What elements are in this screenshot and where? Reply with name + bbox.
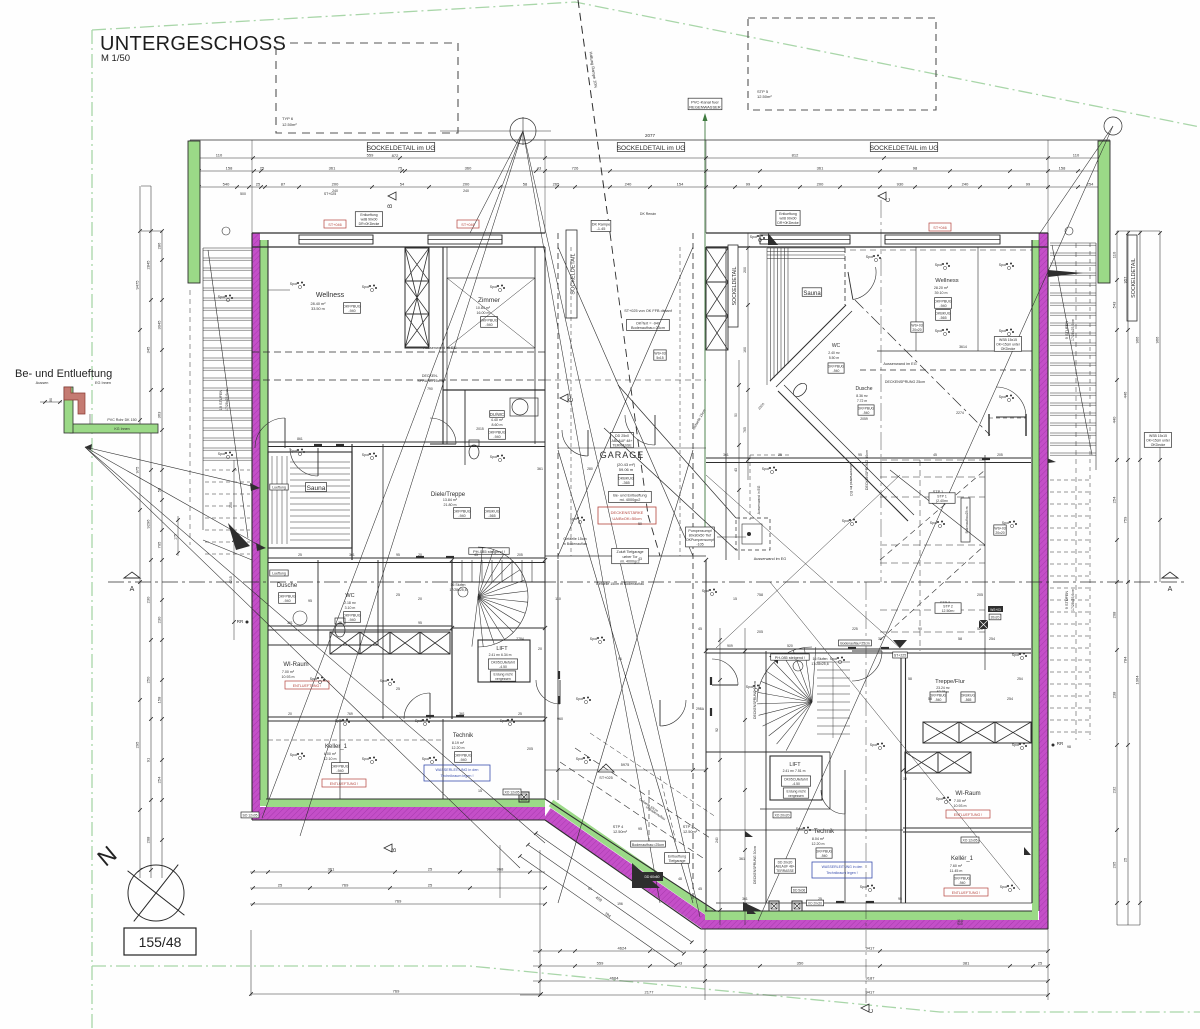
svg-text:87: 87 — [281, 182, 286, 187]
svg-text:Spot: Spot — [762, 467, 769, 471]
svg-text:12.50m²: 12.50m² — [683, 830, 698, 834]
svg-text:Erdung nicht: Erdung nicht — [786, 790, 805, 794]
svg-text:58: 58 — [928, 697, 932, 701]
svg-text:95: 95 — [396, 553, 400, 557]
svg-text:58: 58 — [908, 677, 912, 681]
svg-text:363: 363 — [157, 411, 162, 418]
svg-text:205: 205 — [517, 553, 523, 557]
svg-text:Spot: Spot — [218, 295, 225, 299]
svg-text:205: 205 — [977, 593, 983, 597]
svg-text:-565: -565 — [939, 316, 946, 320]
svg-text:158: 158 — [226, 166, 233, 171]
svg-text:Spot: Spot — [866, 255, 873, 259]
svg-text:DK05CUilefahrt: DK05CUilefahrt — [784, 778, 808, 782]
svg-text:DKFPBUG: DKFPBUG — [343, 614, 361, 618]
svg-text:DK Renán: DK Renán — [640, 212, 656, 216]
svg-text:58: 58 — [958, 637, 962, 641]
svg-text:-940: -940 — [348, 309, 355, 313]
svg-text:ABLAUF 48+: ABLAUF 48+ — [611, 439, 632, 443]
svg-text:9 STUFEN: 9 STUFEN — [1065, 591, 1069, 610]
svg-text:16.00 m: 16.00 m — [477, 311, 490, 315]
svg-text:DD 25x0: DD 25x0 — [615, 434, 629, 438]
svg-text:361: 361 — [287, 621, 293, 625]
svg-text:769: 769 — [395, 899, 402, 904]
svg-text:75: 75 — [398, 166, 403, 171]
svg-text:B: B — [392, 848, 398, 852]
svg-text:230: 230 — [157, 616, 162, 623]
svg-text:DD 5x06: DD 5x06 — [793, 889, 806, 893]
svg-text:DKFPBUG: DKFPBUG — [934, 299, 952, 303]
svg-text:in Bodenauflau: in Bodenauflau — [563, 542, 587, 546]
svg-text:769: 769 — [342, 883, 349, 888]
svg-text:DECKENSTÄRKE: DECKENSTÄRKE — [611, 510, 644, 515]
svg-text:254: 254 — [1017, 677, 1023, 681]
svg-text:DKFPBUG: DKFPBUG — [343, 304, 361, 308]
svg-text:286: 286 — [157, 242, 162, 249]
svg-text:12.50m²: 12.50m² — [942, 609, 956, 613]
svg-text:Bodenauflau=25cm: Bodenauflau=25cm — [840, 642, 869, 646]
svg-text:540: 540 — [223, 182, 230, 187]
svg-text:254: 254 — [1007, 697, 1013, 701]
svg-text:25: 25 — [1038, 961, 1043, 966]
svg-text:240: 240 — [625, 182, 632, 187]
svg-text:440: 440 — [1112, 416, 1117, 423]
svg-text:Tiefgarage: Tiefgarage — [668, 859, 685, 863]
svg-text:Pumpensumpf: Pumpensumpf — [688, 529, 711, 533]
svg-text:WS+03: WS+03 — [990, 608, 1001, 612]
svg-text:6.00 m²: 6.00 m² — [324, 752, 337, 756]
svg-text:WSB 15x15: WSB 15x15 — [1149, 434, 1167, 438]
svg-text:Gefaelle 15cm: Gefaelle 15cm — [563, 537, 586, 541]
svg-text:9187: 9187 — [866, 976, 876, 981]
svg-text:Spot: Spot — [422, 757, 429, 761]
svg-text:45: 45 — [698, 627, 702, 631]
svg-text:ST+046: ST+046 — [328, 223, 341, 227]
svg-text:17/28x25,6cm: 17/28x25,6cm — [1071, 589, 1075, 611]
svg-text:Spot: Spot — [750, 235, 757, 239]
svg-text:7.60 m²: 7.60 m² — [950, 864, 963, 868]
svg-text:-940: -940 — [336, 769, 343, 773]
svg-text:200: 200 — [743, 267, 747, 273]
svg-text:DECKENSPRUNG 30cm: DECKENSPRUNG 30cm — [865, 450, 869, 490]
svg-text:DKBKUG: DKBKUG — [484, 510, 499, 514]
svg-text:XO 20x20: XO 20x20 — [774, 814, 789, 818]
svg-text:99: 99 — [1026, 182, 1031, 187]
svg-text:DKBKUG: DKBKUG — [618, 476, 634, 480]
svg-text:SPRUNG 25cm: SPRUNG 25cm — [417, 379, 442, 383]
svg-text:-940: -940 — [833, 369, 840, 373]
svg-text:DKFPBUG: DKFPBUG — [488, 430, 506, 434]
svg-text:8.60 m: 8.60 m — [492, 423, 503, 427]
svg-text:9296: 9296 — [146, 519, 151, 529]
svg-text:XO 12x05: XO 12x05 — [962, 839, 977, 843]
svg-text:12.50m²: 12.50m² — [282, 122, 297, 127]
svg-text:280: 280 — [587, 467, 593, 471]
svg-text:968: 968 — [497, 867, 504, 872]
svg-text:C: C — [869, 1008, 875, 1013]
svg-text:DKFPBUG: DKFPBUG — [480, 318, 498, 322]
svg-text:158: 158 — [157, 696, 162, 703]
svg-text:Spot: Spot — [500, 719, 507, 723]
svg-text:STP 1: STP 1 — [937, 494, 947, 498]
svg-text:43: 43 — [638, 557, 642, 561]
svg-text:238: 238 — [1112, 691, 1117, 698]
svg-text:mi. 4000gc2: mi. 4000gc2 — [620, 498, 641, 502]
svg-text:Spot: Spot — [842, 519, 849, 523]
svg-text:20: 20 — [288, 712, 292, 716]
svg-text:DECKEN-: DECKEN- — [422, 374, 439, 378]
svg-text:-365: -365 — [622, 481, 630, 485]
svg-text:765: 765 — [743, 427, 747, 433]
svg-text:25: 25 — [818, 897, 822, 901]
svg-text:DECKENSPRUNG 25cm: DECKENSPRUNG 25cm — [885, 380, 925, 384]
svg-text:Keller_1: Keller_1 — [325, 744, 348, 750]
svg-text:DK05CUilefahrt: DK05CUilefahrt — [491, 661, 515, 665]
svg-text:WC: WC — [832, 343, 841, 349]
svg-text:45: 45 — [933, 453, 937, 457]
svg-text:STP 3: STP 3 — [683, 825, 693, 829]
svg-text:25: 25 — [778, 453, 782, 457]
svg-text:C: C — [886, 197, 892, 202]
svg-text:DECKENSPRUNG 30cm: DECKENSPRUNG 30cm — [753, 846, 757, 884]
svg-text:A: A — [130, 586, 135, 593]
svg-text:110: 110 — [555, 597, 561, 601]
svg-text:SOCKELDETAIL: SOCKELDETAIL — [732, 266, 738, 305]
svg-text:90: 90 — [918, 627, 922, 631]
svg-text:OKDecke: OKDecke — [1151, 443, 1166, 447]
svg-text:205: 205 — [757, 630, 763, 634]
svg-text:Spot: Spot — [870, 743, 877, 747]
svg-text:-940: -940 — [485, 323, 492, 327]
svg-text:39.10 m: 39.10 m — [935, 291, 948, 295]
svg-text:160: 160 — [743, 347, 747, 353]
svg-text:ST+046: ST+046 — [933, 226, 946, 230]
svg-text:33.50 m: 33.50 m — [311, 307, 325, 311]
svg-text:STP 4: STP 4 — [613, 825, 623, 829]
svg-text:25: 25 — [428, 883, 433, 888]
svg-text:155/48: 155/48 — [139, 934, 182, 950]
svg-text:DKFPBUG: DKFPBUG — [930, 694, 947, 698]
svg-text:45: 45 — [698, 887, 702, 891]
svg-text:-940: -940 — [348, 618, 355, 622]
svg-text:Ausserwand im EG: Ausserwand im EG — [754, 557, 787, 561]
svg-text:2059: 2059 — [860, 417, 868, 421]
svg-text:Spot: Spot — [935, 263, 942, 267]
svg-text:8.19 m²: 8.19 m² — [452, 741, 465, 745]
svg-text:30: 30 — [903, 777, 907, 781]
svg-text:2015: 2015 — [476, 427, 484, 431]
svg-text:790: 790 — [427, 387, 433, 391]
svg-text:2077: 2077 — [645, 133, 656, 138]
svg-text:DR<0KDecke: DR<0KDecke — [359, 222, 380, 226]
svg-text:17/28x25,6: 17/28x25,6 — [811, 662, 828, 666]
svg-text:Aussen: Aussen — [36, 381, 49, 385]
svg-text:12.20 m: 12.20 m — [812, 842, 825, 846]
svg-text:ENTLUEFTUNG !: ENTLUEFTUNG ! — [952, 891, 981, 895]
svg-text:DU/WC: DU/WC — [490, 412, 504, 417]
svg-text:99: 99 — [746, 182, 751, 187]
svg-text:784: 784 — [1123, 656, 1128, 663]
svg-text:909: 909 — [727, 644, 733, 648]
svg-text:158: 158 — [1059, 166, 1066, 171]
svg-text:Be- und Entlueftung: Be- und Entlueftung — [15, 368, 112, 380]
svg-text:DKFPBUG: DKFPBUG — [454, 754, 472, 758]
svg-text:OKPumpensumpf: OKPumpensumpf — [686, 538, 714, 542]
svg-text:20: 20 — [538, 647, 542, 651]
svg-text:-940: -940 — [939, 304, 946, 308]
svg-text:543: 543 — [1112, 301, 1117, 308]
svg-text:295: 295 — [135, 741, 140, 748]
svg-text:91: 91 — [588, 887, 592, 891]
svg-text:43: 43 — [678, 961, 683, 966]
svg-text:254: 254 — [157, 776, 162, 783]
svg-text:Technik: Technik — [453, 733, 474, 739]
svg-text:98: 98 — [1067, 745, 1071, 749]
svg-text:12.20 m: 12.20 m — [452, 746, 465, 750]
svg-text:Wellness: Wellness — [316, 292, 345, 299]
svg-text:-940: -940 — [935, 698, 942, 702]
svg-text:Spot: Spot — [490, 455, 497, 459]
svg-text:DK Rampe: DK Rampe — [592, 222, 611, 226]
svg-text:w08 90x00: w08 90x00 — [780, 217, 797, 221]
svg-text:5975: 5975 — [621, 763, 629, 767]
svg-text:957: 957 — [1123, 276, 1128, 283]
svg-text:50: 50 — [734, 413, 738, 417]
svg-text:DKFPBUG: DKFPBUG — [331, 765, 349, 769]
svg-text:91: 91 — [146, 757, 151, 762]
svg-text:WSB 15x15: WSB 15x15 — [999, 338, 1017, 342]
svg-text:45: 45 — [474, 553, 478, 557]
svg-text:28.40 m²: 28.40 m² — [311, 302, 327, 306]
svg-text:SO 12x05: SO 12x05 — [242, 814, 257, 818]
svg-text:232: 232 — [1112, 786, 1117, 793]
svg-text:Ausserwand im EG: Ausserwand im EG — [849, 464, 853, 497]
svg-text:758: 758 — [757, 593, 763, 597]
svg-text:559: 559 — [367, 153, 374, 158]
svg-text:RR: RR — [1057, 741, 1064, 746]
svg-text:C: C — [569, 397, 575, 402]
svg-text:EG Innen: EG Innen — [95, 381, 111, 385]
svg-text:Spot: Spot — [490, 285, 497, 289]
svg-text:DR+0KDecke: DR+0KDecke — [777, 221, 798, 225]
svg-text:205: 205 — [997, 453, 1003, 457]
svg-text:200: 200 — [332, 182, 339, 187]
svg-text:95: 95 — [858, 453, 862, 457]
svg-text:Spot: Spot — [290, 282, 297, 286]
svg-text:Bodenaufbau=25cm: Bodenaufbau=25cm — [631, 326, 665, 330]
svg-text:ST+225: ST+225 — [894, 654, 906, 658]
svg-text:-105: -105 — [696, 543, 703, 547]
svg-text:TERRASSE: TERRASSE — [776, 869, 795, 873]
svg-text:DKFPBUG: DKFPBUG — [278, 595, 296, 599]
svg-text:Spot: Spot — [415, 719, 422, 723]
svg-text:361: 361 — [742, 897, 748, 901]
svg-text:-940: -940 — [283, 599, 290, 603]
svg-text:2.41 m² 6.34 m: 2.41 m² 6.34 m — [489, 653, 512, 657]
svg-text:DKBKUG: DKBKUG — [961, 694, 976, 698]
svg-text:DKFPBUG: DKFPBUG — [954, 877, 971, 881]
svg-text:Spot: Spot — [570, 517, 577, 521]
svg-text:225: 225 — [852, 627, 858, 631]
svg-text:25: 25 — [518, 712, 522, 716]
svg-text:13.84 m²: 13.84 m² — [443, 498, 458, 502]
svg-text:Spot: Spot — [702, 589, 709, 593]
svg-text:DKFPBUG: DKFPBUG — [816, 850, 833, 854]
svg-text:Spot: Spot — [1002, 521, 1009, 525]
svg-text:Spot: Spot — [362, 285, 369, 289]
svg-text:Spot: Spot — [380, 679, 387, 683]
svg-text:-940: -940 — [959, 881, 966, 885]
svg-text:361: 361 — [817, 166, 824, 171]
svg-text:2177: 2177 — [645, 990, 655, 995]
svg-text:SOCKELDETAIL: SOCKELDETAIL — [571, 253, 577, 294]
svg-text:Spot: Spot — [936, 797, 943, 801]
svg-text:360: 360 — [465, 166, 472, 171]
svg-text:Spot: Spot — [362, 453, 369, 457]
svg-text:KG Innen: KG Innen — [114, 427, 129, 431]
svg-text:58: 58 — [523, 182, 528, 187]
svg-text:20x20: 20x20 — [912, 328, 921, 332]
svg-text:Spot: Spot — [1012, 653, 1019, 657]
svg-text:2.18 m²: 2.18 m² — [344, 601, 357, 605]
svg-text:Spot: Spot — [590, 637, 597, 641]
svg-text:TYP 6: TYP 6 — [282, 116, 294, 121]
svg-text:RR: RR — [237, 619, 244, 624]
svg-text:DKFPBUG: DKFPBUG — [828, 364, 845, 368]
svg-text:240: 240 — [463, 189, 469, 193]
svg-text:Spot: Spot — [999, 263, 1006, 267]
svg-text:Spot: Spot — [310, 677, 317, 681]
svg-text:769: 769 — [347, 712, 353, 716]
svg-text:ST+046: ST+046 — [461, 223, 474, 227]
svg-text:Be- und Entlueftung: Be- und Entlueftung — [613, 493, 647, 497]
svg-text:Zimmer: Zimmer — [478, 297, 501, 304]
svg-text:WI-Raum: WI-Raum — [283, 662, 308, 668]
svg-text:43: 43 — [537, 166, 542, 171]
svg-text:(2.40m²: (2.40m² — [936, 499, 949, 503]
svg-text:STP 2: STP 2 — [943, 605, 953, 609]
svg-text:7.00 m²: 7.00 m² — [954, 799, 967, 803]
svg-text:Dusche: Dusche — [856, 386, 873, 392]
svg-text:110: 110 — [216, 153, 223, 158]
svg-text:PH-085 stelgend !: PH-085 stelgend ! — [775, 656, 805, 660]
svg-text:Aussenwand im EG: Aussenwand im EG — [883, 362, 916, 366]
svg-text:80: 80 — [49, 398, 53, 402]
svg-text:4215: 4215 — [229, 576, 233, 584]
svg-text:B: B — [388, 204, 394, 208]
svg-text:OK+15cm unter: OK+15cm unter — [1146, 439, 1171, 443]
svg-text:2.40 m²: 2.40 m² — [828, 351, 840, 355]
svg-text:2845: 2845 — [146, 260, 151, 270]
svg-text:Spot: Spot — [335, 719, 342, 723]
svg-text:DKFPBUG: DKFPBUG — [453, 510, 471, 514]
svg-text:Spot: Spot — [576, 757, 583, 761]
svg-text:Treppe/Flur: Treppe/Flur — [935, 679, 965, 685]
svg-text:250: 250 — [229, 502, 233, 508]
svg-text:UA/BxOK=50cm: UA/BxOK=50cm — [612, 516, 642, 521]
svg-text:Spot: Spot — [796, 827, 803, 831]
svg-text:9417: 9417 — [866, 946, 876, 951]
svg-text:WI-Raum: WI-Raum — [955, 791, 980, 797]
svg-text:Technikraum legen !: Technikraum legen ! — [826, 871, 857, 875]
svg-text:361: 361 — [328, 867, 335, 872]
svg-text:92: 92 — [715, 728, 719, 732]
svg-text:GARAGE: GARAGE — [600, 450, 645, 460]
svg-text:12.50m²: 12.50m² — [757, 94, 772, 99]
svg-text:LIFT: LIFT — [496, 646, 508, 652]
svg-text:25: 25 — [396, 687, 400, 691]
svg-text:ST+025: ST+025 — [599, 776, 612, 780]
svg-text:UNTERGESCHOSS: UNTERGESCHOSS — [100, 33, 286, 55]
svg-text:M 1/50: M 1/50 — [101, 53, 130, 64]
svg-text:Spot: Spot — [830, 657, 837, 661]
svg-text:110: 110 — [1112, 251, 1117, 258]
svg-text:12.50m²: 12.50m² — [613, 830, 628, 834]
svg-text:11.45 m: 11.45 m — [950, 869, 963, 873]
svg-text:-940: -940 — [493, 435, 500, 439]
svg-text:25: 25 — [298, 553, 302, 557]
svg-text:110: 110 — [1073, 153, 1080, 158]
svg-text:Spot: Spot — [218, 452, 225, 456]
svg-text:10.84 m²: 10.84 m² — [476, 306, 491, 310]
svg-text:350: 350 — [797, 961, 804, 966]
svg-text:446: 446 — [1123, 391, 1128, 398]
svg-text:Sauna: Sauna — [803, 291, 821, 297]
svg-text:8.04 m²: 8.04 m² — [812, 837, 825, 841]
svg-text:9475: 9475 — [135, 280, 140, 290]
svg-text:15: 15 — [733, 597, 737, 601]
svg-text:Dusche: Dusche — [277, 583, 298, 589]
svg-text:759: 759 — [1123, 516, 1128, 523]
svg-text:Spot: Spot — [290, 753, 297, 757]
svg-text:3.10 m: 3.10 m — [345, 606, 356, 610]
svg-text:-940: -940 — [863, 411, 870, 415]
svg-text:Spot: Spot — [860, 885, 867, 889]
svg-text:205: 205 — [527, 747, 533, 751]
svg-text:7.72 m: 7.72 m — [857, 399, 868, 403]
svg-text:DKFPBUG: DKFPBUG — [858, 406, 875, 410]
svg-text:4.40 m²: 4.40 m² — [491, 418, 504, 422]
svg-text:PVC Rohr DK 150: PVC Rohr DK 150 — [107, 418, 136, 422]
svg-text:861: 861 — [297, 437, 303, 441]
svg-text:Lueftung: Lueftung — [272, 572, 286, 576]
svg-text:361: 361 — [537, 467, 543, 471]
svg-text:Spot: Spot — [1012, 743, 1019, 747]
svg-text:80x80x50 Tief: 80x80x50 Tief — [689, 534, 711, 538]
svg-text:ENTLUEFTUNG !: ENTLUEFTUNG ! — [330, 782, 359, 786]
svg-text:16 Stufen: 16 Stufen — [451, 583, 466, 587]
svg-text:Entlueftung: Entlueftung — [668, 855, 686, 859]
svg-text:XO 12x05: XO 12x05 — [504, 791, 519, 795]
svg-text:vergessen: vergessen — [495, 677, 511, 681]
svg-text:812: 812 — [792, 153, 799, 158]
svg-text:5.50 m: 5.50 m — [829, 356, 840, 360]
svg-text:SOCKELDETAIL: SOCKELDETAIL — [1131, 258, 1137, 298]
svg-text:520: 520 — [787, 644, 793, 648]
svg-text:Spot: Spot — [999, 329, 1006, 333]
svg-text:98: 98 — [913, 166, 918, 171]
svg-text:361: 361 — [349, 553, 355, 557]
svg-text:966: 966 — [1155, 336, 1160, 343]
svg-text:20x20: 20x20 — [991, 616, 1000, 620]
svg-text:196: 196 — [617, 902, 623, 906]
svg-text:-1.45: -1.45 — [597, 227, 606, 231]
svg-text:9 STUFEN: 9 STUFEN — [1065, 321, 1069, 340]
svg-text:59.06 m: 59.06 m — [619, 467, 634, 472]
svg-text:208: 208 — [146, 836, 151, 843]
svg-text:520: 520 — [977, 627, 983, 631]
svg-text:Spot: Spot — [290, 449, 297, 453]
